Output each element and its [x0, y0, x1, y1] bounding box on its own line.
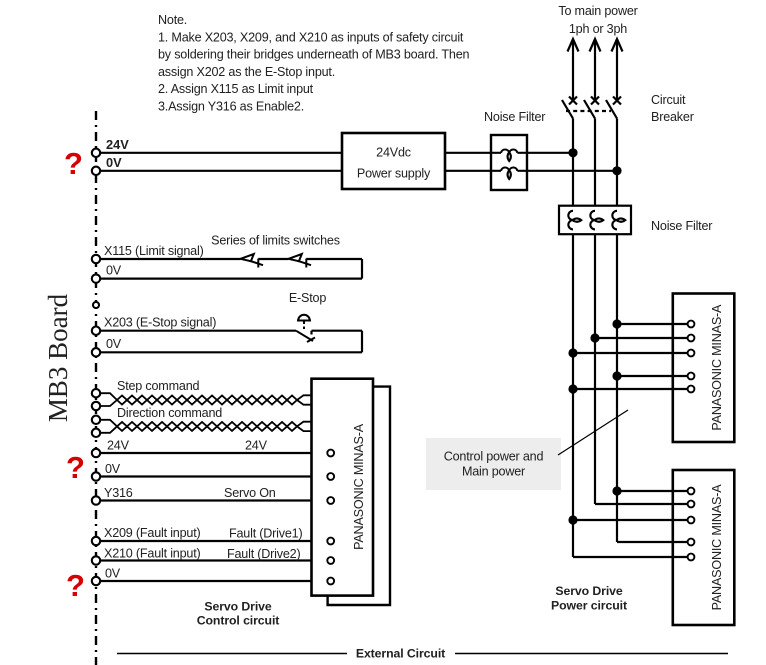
- noise filter 2 box: [559, 206, 631, 235]
- svg-text:?: ?: [64, 146, 83, 181]
- control box terminals: [327, 450, 334, 585]
- svg-text:PANASONIC MINAS-A: PANASONIC MINAS-A: [352, 423, 366, 550]
- E-stop switch: [296, 315, 315, 342]
- svg-text:Fault (Drive1): Fault (Drive1): [229, 527, 302, 541]
- svg-text:To main power: To main power: [558, 4, 637, 18]
- noise filter 2 choke 3: [612, 211, 625, 230]
- control wires 24V 0V Y316 X209 X210 0V: [100, 453, 328, 581]
- wire noise filter to vertical line 3: [527, 170, 617, 172]
- servo drive power box 2: [673, 470, 735, 625]
- svg-text:MB3 Board: MB3 Board: [43, 293, 73, 422]
- svg-text:X115 (Limit signal): X115 (Limit signal): [104, 244, 204, 258]
- breaker contact x 1: [569, 97, 577, 105]
- svg-text:3.Assign Y316 as Enable2.: 3.Assign Y316 as Enable2.: [158, 100, 304, 114]
- junction dots: [568, 148, 621, 524]
- svg-text:0V: 0V: [106, 337, 122, 351]
- noise filter 1 choke top: [491, 150, 527, 161]
- circuit breaker poles: [562, 97, 621, 119]
- vertical power line 3: [616, 119, 618, 543]
- 24Vdc power supply box: [342, 133, 445, 189]
- power box 1 wires: [573, 324, 688, 389]
- svg-text:X209 (Fault input): X209 (Fault input): [104, 526, 201, 540]
- svg-text:Direction command: Direction command: [117, 406, 222, 420]
- svg-text:0V: 0V: [105, 462, 121, 476]
- breaker contact x 3: [613, 97, 621, 105]
- svg-text:Servo Drive: Servo Drive: [555, 584, 623, 598]
- svg-text:Y316: Y316: [104, 486, 133, 500]
- svg-text:by soldering their bridges und: by soldering their bridges underneath of…: [158, 48, 470, 62]
- X203 E-stop loop wire: [100, 331, 362, 353]
- svg-text:E-Stop: E-Stop: [289, 291, 326, 305]
- phase line 3 arrow: [616, 39, 618, 100]
- note text block: [158, 13, 470, 114]
- svg-text:Circuit: Circuit: [651, 93, 686, 107]
- servo drive power box 1: [673, 294, 735, 443]
- svg-text:PANASONIC MINAS-A: PANASONIC MINAS-A: [710, 304, 724, 431]
- svg-text:24V: 24V: [106, 137, 129, 152]
- svg-text:?: ?: [66, 450, 85, 485]
- wire 24V to power supply: [100, 152, 342, 154]
- svg-text:Fault (Drive2): Fault (Drive2): [227, 547, 300, 561]
- step command twisted pair: [100, 393, 312, 406]
- svg-text:24V: 24V: [107, 439, 130, 453]
- servo drive control shadow box: [328, 387, 390, 605]
- limit switch 1: [241, 254, 264, 268]
- svg-text:?: ?: [66, 568, 85, 603]
- svg-text:24V: 24V: [245, 439, 268, 453]
- svg-text:Step command: Step command: [117, 379, 199, 393]
- breaker contact x 2: [591, 97, 599, 105]
- breaker linkage dashed: [566, 110, 611, 112]
- svg-text:24Vdc: 24Vdc: [376, 146, 411, 160]
- svg-text:Series of limits switches: Series of limits switches: [211, 234, 340, 248]
- svg-text:Noise Filter: Noise Filter: [484, 110, 545, 124]
- wire noise filter to vertical line 1: [527, 152, 573, 154]
- svg-text:Control power and: Control power and: [444, 450, 544, 464]
- svg-text:PANASONIC MINAS-A: PANASONIC MINAS-A: [710, 484, 724, 611]
- svg-text:1. Make X203, X209, and X210 a: 1. Make X203, X209, and X210 as inputs o…: [158, 30, 464, 44]
- svg-text:Main power: Main power: [462, 465, 525, 479]
- power box 1 terminals: [688, 321, 695, 393]
- vertical power line 1: [572, 119, 574, 558]
- wire 0V to power supply: [100, 170, 342, 172]
- MB3 terminal circles: [92, 149, 100, 586]
- MB3 board boundary dash-dot line: [95, 111, 97, 665]
- power box 2 wires: [573, 491, 688, 557]
- X115 limit signal loop wire: [100, 259, 362, 279]
- svg-text:Power supply: Power supply: [357, 167, 431, 181]
- noise filter 1 choke bottom: [491, 168, 527, 179]
- svg-text:Noise Filter: Noise Filter: [651, 219, 712, 233]
- external circuit bracket: [117, 653, 347, 655]
- breaker blade 1: [562, 100, 573, 119]
- to main power arrows: [568, 39, 623, 100]
- svg-text:0V: 0V: [106, 264, 122, 278]
- svg-text:Servo On: Servo On: [224, 486, 276, 500]
- svg-text:1ph or 3ph: 1ph or 3ph: [569, 22, 627, 36]
- breaker blade 2: [584, 100, 595, 119]
- wire 24V powersupply to noise filter: [445, 152, 491, 154]
- svg-text:0V: 0V: [106, 155, 122, 170]
- svg-text:External Circuit: External Circuit: [356, 647, 445, 661]
- servo drive control box U1: [312, 379, 374, 596]
- svg-text:Power circuit: Power circuit: [551, 599, 627, 613]
- svg-text:Control circuit: Control circuit: [197, 614, 280, 628]
- breaker blade 3: [606, 100, 617, 119]
- callout line: [558, 410, 628, 455]
- vertical power line 2: [594, 119, 596, 505]
- control power callout box: [426, 438, 561, 490]
- svg-text:assign X202 as the E-Stop inpu: assign X202 as the E-Stop input.: [158, 65, 335, 79]
- svg-text:Breaker: Breaker: [651, 110, 694, 124]
- svg-text:Note.: Note.: [158, 13, 187, 27]
- noise filter 2 choke 1: [568, 211, 581, 230]
- phase line 1 arrow: [572, 39, 574, 100]
- power box 2 terminals: [688, 488, 695, 561]
- phase line 2 arrow: [594, 39, 596, 100]
- svg-text:2. Assign X115 as Limit input: 2. Assign X115 as Limit input: [158, 82, 314, 96]
- svg-text:0V: 0V: [105, 567, 121, 581]
- noise filter 1 box: [491, 135, 527, 190]
- svg-text:X203 (E-Stop signal): X203 (E-Stop signal): [104, 316, 216, 330]
- noise filter 2 choke 2: [590, 211, 603, 230]
- svg-text:X210 (Fault input): X210 (Fault input): [104, 547, 201, 561]
- direction command twisted pair: [100, 420, 312, 433]
- svg-text:Servo Drive: Servo Drive: [204, 600, 272, 614]
- limit switch 2: [289, 254, 312, 268]
